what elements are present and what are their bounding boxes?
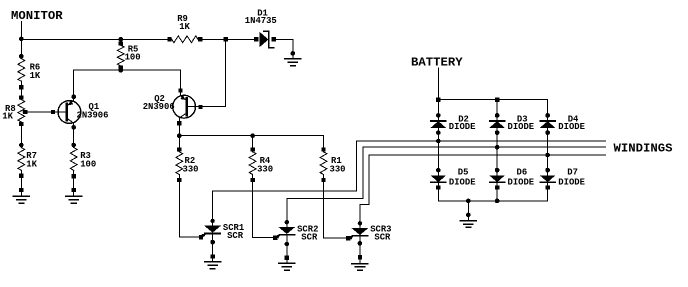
diode D5 [431,176,446,183]
wire phase 1 to SCR1 anode [213,141,357,226]
pin R6 bottom [19,85,23,89]
wire Q1 base [23,111,67,113]
pin R1 bottom [321,178,325,182]
wire bridge top rail [438,99,547,101]
node R7 top pin [19,143,24,148]
wire SCR1 cathode [212,233,214,256]
node winding tap 3 [495,145,500,150]
SCR2 triangle [279,227,294,233]
pin SCR1 gate [199,235,203,239]
node D2 top pin [436,113,441,118]
svg-text:2N3906: 2N3906 [77,110,109,120]
node R3 top pin [71,143,76,148]
wire bridge bottom rail [438,200,547,202]
pin R7 bottom [19,173,23,177]
svg-text:1K: 1K [26,159,37,169]
resistor R6 [18,59,25,82]
svg-text:D5: D5 [458,168,469,178]
svg-text:DIODE: DIODE [558,122,585,132]
resistor R9 [172,36,198,43]
resistor R5 [117,45,124,66]
SCR1 anode pin [210,219,214,223]
wire Q2 collector down [178,118,180,150]
wire winding phase 3 [369,154,605,156]
wire monitor input [20,22,22,40]
pin R8 bottom [19,122,23,126]
svg-text:D6: D6 [517,168,528,178]
wire bridge branch 3 [496,100,498,201]
wire bridge branch 4 [547,100,549,201]
pin R2 bottom [177,178,181,182]
pin R4 bottom [250,178,254,182]
wire winding phase 1 [357,140,606,142]
svg-text:1K: 1K [30,71,41,81]
SCR2 cathode bar [279,234,294,236]
ground under R7 [13,188,29,203]
wire SCR3 cathode [359,236,361,257]
wire emitter rail [74,69,181,71]
svg-text:2N3906: 2N3906 [143,102,175,112]
resistor R7 [18,148,25,171]
wire R1 to SCR3 gate [324,175,348,239]
node winding tap 4 [545,153,550,158]
node D7 top pin [545,168,550,173]
transistor Q1 collector [67,119,74,123]
pin Q2 base [198,105,202,109]
svg-text:DIODE: DIODE [558,178,585,188]
pin Q2 emitter [178,88,182,92]
svg-text:DIODE: DIODE [449,178,476,188]
node D3 bottom pin [495,130,500,135]
wire phase 2 to SCR2 anode [287,147,363,227]
svg-text:100: 100 [80,159,96,169]
wire bridge ground stem [467,201,469,215]
svg-text:330: 330 [257,164,273,174]
svg-text:DIODE: DIODE [508,178,535,188]
node D1 ground pin [290,51,295,56]
node zener rail junction [223,37,227,41]
node R5 bottom junction [118,68,123,73]
resistor R1 [320,152,327,175]
svg-text:SCR: SCR [227,231,244,241]
node winding tap 2 [436,139,441,144]
wire zener to ground [274,39,293,53]
wire R3 to ground [73,170,75,190]
wire R5 bottom stem [120,66,122,70]
svg-text:330: 330 [183,164,199,174]
svg-text:MONITOR: MONITOR [11,9,63,23]
svg-text:WINDINGS: WINDINGS [614,142,673,156]
SCR3 gate wire [348,236,353,238]
wire R1 top stem [323,136,325,152]
wire R5 top stem [120,39,122,45]
wire R4 top stem [252,136,254,152]
transistor Q2 emitter arrow [180,95,186,100]
wire Q1 collector down [73,123,75,148]
wire R9 to zener [200,38,256,40]
diode D1 zener bar [264,31,274,48]
pin D1 cathode [272,37,276,41]
pin R4 top [250,147,254,151]
diode D1 triangle [260,33,268,47]
transistor Q2 base bar [185,98,188,115]
wire top rail left [21,38,167,40]
node D6 top pin [495,168,500,173]
pin R9 right [198,37,202,41]
SCR3 cathode bar [352,235,367,237]
svg-text:BATTERY: BATTERY [411,56,463,70]
pin SCR3 gate [346,236,350,240]
node R5 top junction [118,37,123,42]
svg-text:D7: D7 [567,168,578,178]
ground under D1 [285,53,301,65]
wire zener node to Q2 base [187,39,226,106]
wire SCR2 cathode [286,235,288,258]
SCR3 triangle [352,228,367,234]
node D4 bottom pin [545,130,550,135]
wire R7 to ground [20,170,22,190]
SCR2 anode pin [285,220,289,224]
pin R3 bottom [72,174,76,178]
node Q1 emitter pin [71,94,76,99]
node bridge ground junction [466,199,471,204]
resistor R4 [249,152,256,175]
SCR2 gate wire [275,235,280,238]
wire battery down [437,68,439,100]
node Q2 collector junction [177,133,182,138]
diode D7 [540,176,555,183]
ground under bridge [460,215,476,228]
SCR1 cathode bar [205,232,220,234]
diode D3 [490,121,505,128]
svg-text:DIODE: DIODE [508,122,535,132]
node bridge ground pin [466,213,471,218]
wire R6 to R8 [20,81,22,99]
wire gate rail [179,135,323,137]
ground under SCR1 [205,254,221,268]
svg-text:DIODE: DIODE [449,122,476,132]
node Q1 collector pin [71,125,76,130]
node D2 bottom pin [436,130,441,135]
pin R8 top [19,95,23,99]
pin D6 bottom [495,185,499,189]
SCR2 gate arrow [276,235,281,239]
pin R5 top [119,41,123,45]
wire bridge branch 2 [437,100,439,201]
node SCR1 cathode pin [210,240,215,245]
node bridge top left [436,98,440,102]
svg-text:SCR: SCR [301,233,318,243]
resistor R3 [70,148,77,171]
node D4 top pin [545,113,550,118]
node R6 top pin [19,54,24,59]
SCR3 gate arrow [349,236,354,240]
transistor Q2 emitter [181,96,187,100]
node D3 top pin [495,113,500,118]
node SCR2 cathode pin [284,242,289,247]
SCR3 anode pin [358,221,362,225]
ground under SCR3 [352,255,368,270]
transistor Q1 emitter arrow [68,101,74,106]
pin D5 bottom [436,185,440,189]
pin R2 top [177,147,181,151]
wire Q1 emitter up [73,70,75,101]
transistor Q2 collector [180,113,187,117]
svg-text:SCR: SCR [374,233,391,243]
node D5 top pin [436,168,441,173]
svg-text:1K: 1K [179,22,190,32]
SCR1 gate wire [201,234,206,238]
diode D2 [431,121,446,128]
SCR1 gate arrow [202,233,207,237]
svg-text:1N4735: 1N4735 [245,16,277,26]
pin R5 bottom [119,65,123,69]
transistor Q1 emitter [67,101,74,105]
node SCR3 cathode pin [358,241,363,246]
wire phase 3 to SCR3 anode [360,155,369,228]
node monitor rail junction [19,37,24,42]
transistor Q2 body [173,95,196,118]
pin Q2 collector [177,121,181,125]
pin D1 anode [254,37,258,41]
pin Q1 base [51,110,55,114]
pin base wire left [23,110,27,114]
svg-text:330: 330 [330,164,346,174]
ground under SCR2 [279,256,295,271]
node bridge top mid [495,98,499,102]
node bridge mid bottom [495,199,500,204]
resistor R2 [176,152,183,175]
svg-text:1K: 1K [2,112,13,122]
pin R1 top [321,147,325,151]
wire R8 to R7 [20,122,22,148]
pin R9 left [167,37,171,41]
pin SCR2 gate [273,235,277,239]
wire R6 top [20,39,22,58]
wire R4 to SCR2 gate [253,175,276,238]
node R4 rail junction [250,133,255,138]
wire R2 to SCR1 gate [179,175,201,238]
svg-text:100: 100 [125,53,141,63]
transistor Q1 body [58,101,81,124]
diode D6 [490,176,505,183]
ground under R3 [66,188,82,203]
SCR1 triangle [205,226,220,232]
transistor Q1 base bar [65,104,68,121]
diode D4 [540,121,555,128]
wire Q2 emitter up [180,70,182,96]
pin D7 bottom [545,185,549,189]
wire winding phase 2 [363,146,606,148]
resistor R8 [18,100,25,122]
